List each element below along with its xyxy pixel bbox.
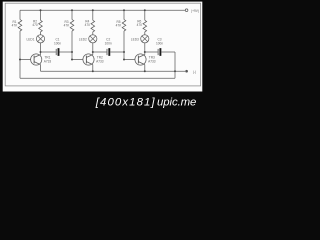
svg-text:A733: A733 (96, 60, 104, 64)
svg-text:47K: 47K (116, 24, 123, 28)
svg-text:(-): (-) (193, 70, 196, 74)
svg-text:A733: A733 (44, 60, 52, 64)
svg-text:470: 470 (32, 23, 38, 27)
svg-text:A733: A733 (148, 60, 156, 64)
svg-text:47K: 47K (64, 24, 71, 28)
svg-text:upic.me: upic.me (157, 96, 196, 108)
svg-text:LED3: LED3 (131, 38, 139, 42)
svg-text:100n: 100n (54, 41, 61, 45)
svg-text:100n: 100n (105, 41, 112, 45)
svg-text:47K: 47K (12, 24, 19, 28)
svg-text:LED2: LED2 (79, 38, 87, 42)
svg-text:470: 470 (137, 23, 143, 27)
svg-text:100n: 100n (156, 41, 163, 45)
svg-text:[400x181]: [400x181] (95, 96, 156, 108)
svg-text:LED1: LED1 (27, 38, 35, 42)
svg-text:(+9V): (+9V) (191, 9, 199, 13)
svg-text:470: 470 (85, 23, 91, 27)
